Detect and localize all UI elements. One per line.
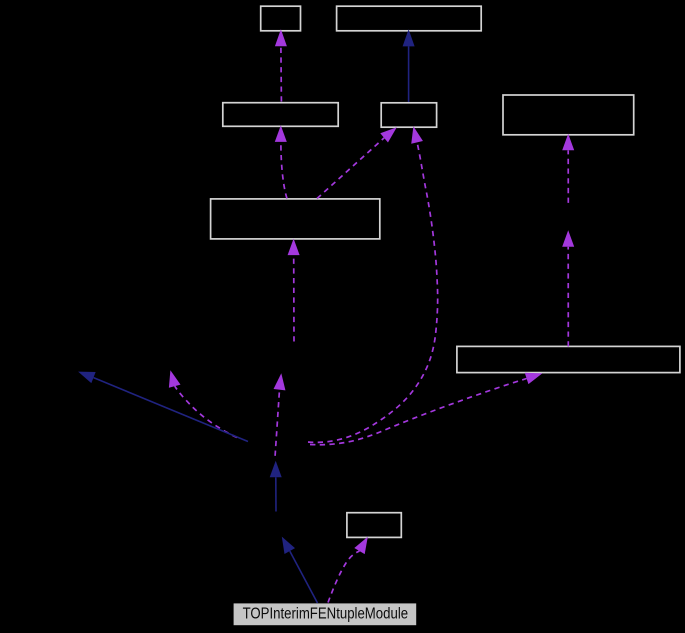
svg-text:TOPInterimFENtupleModule: TOPInterimFENtupleModule xyxy=(243,605,409,622)
